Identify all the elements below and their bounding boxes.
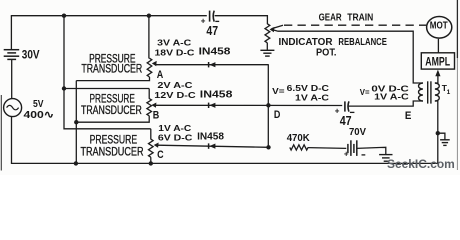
svg-text:V=: V= xyxy=(360,87,370,97)
motor MOT circle xyxy=(427,17,452,39)
label C2 minus xyxy=(350,111,355,113)
node dot top rail / pot A xyxy=(147,14,151,18)
battery B1 30V xyxy=(4,50,20,60)
wire row B wiper to capacitor C2 xyxy=(155,104,342,106)
label pressure transducer B xyxy=(81,92,142,117)
wire pot B top edge xyxy=(64,88,150,90)
svg-text:IN458: IN458 xyxy=(200,90,233,101)
resistor R5 470K xyxy=(290,145,308,150)
svg-text:REBALANCE: REBALANCE xyxy=(338,37,387,48)
svg-text:1: 1 xyxy=(447,89,451,96)
svg-text:E: E xyxy=(405,110,412,122)
wire row A wiper to bus xyxy=(155,64,268,66)
label 1V A-C at E xyxy=(374,92,409,102)
wire transformer secondary to amplifier with arrow xyxy=(435,70,440,84)
wire pot A bottom edge xyxy=(76,77,149,81)
wiper arrow pot C xyxy=(154,143,159,148)
node dot tie line / bottom rail xyxy=(74,161,78,165)
label INDICATOR REBALANCE xyxy=(279,37,387,48)
label 18V D-C xyxy=(155,47,195,57)
svg-text:POT.: POT. xyxy=(316,48,337,59)
label C1 value 47 xyxy=(206,23,218,38)
label 12V D-C xyxy=(154,90,195,100)
wire pot B bottom edge xyxy=(76,116,149,122)
node dot D xyxy=(266,103,270,107)
label 30V xyxy=(22,50,40,62)
label IN458 row C xyxy=(197,132,224,143)
svg-text:TRAIN: TRAIN xyxy=(347,12,373,23)
svg-text:B: B xyxy=(153,109,160,121)
label node B xyxy=(153,109,160,121)
node dot secondary bottom branch xyxy=(436,131,440,135)
wiper arrow of rebalance pot xyxy=(270,27,275,32)
wire rebalance pot to ground xyxy=(266,43,268,50)
svg-text:+: + xyxy=(344,150,349,159)
potentiometer B element xyxy=(147,99,152,116)
svg-text:C: C xyxy=(157,149,164,161)
wire bottom rail xyxy=(11,162,439,164)
ground right of 70V battery xyxy=(379,155,392,162)
wiper arrow pot A xyxy=(152,61,157,66)
svg-text:2V A-C: 2V A-C xyxy=(157,80,192,90)
svg-text:47: 47 xyxy=(206,23,218,38)
ground below transformer xyxy=(440,140,450,146)
wire battery to ac source xyxy=(11,59,13,98)
label C1 plus xyxy=(201,17,206,26)
svg-text:IN458: IN458 xyxy=(199,47,231,58)
svg-text:1V A-C: 1V A-C xyxy=(295,92,329,102)
capacitor C1 47 plates xyxy=(210,11,215,22)
label IN458 row B xyxy=(200,90,233,101)
node dot tie line / pot B bottom xyxy=(74,120,78,124)
potentiometer R4 indicator rebalance pot element xyxy=(265,24,270,43)
svg-text:TRANSDUCER: TRANSDUCER xyxy=(81,62,142,76)
wire battery top lead xyxy=(10,16,12,49)
label pressure transducer A xyxy=(81,51,142,75)
svg-text:18V D-C: 18V D-C xyxy=(155,47,195,57)
label 6V D-C xyxy=(158,132,193,142)
label AMPL xyxy=(425,55,450,69)
svg-text:30V: 30V xyxy=(22,50,40,62)
label node A xyxy=(157,69,164,81)
label 3V A-C xyxy=(157,38,191,48)
wire ac source to bottom rail xyxy=(11,117,13,164)
svg-text:V=: V= xyxy=(272,86,284,96)
svg-text:D: D xyxy=(274,109,281,121)
label T1 xyxy=(442,83,451,96)
potentiometer A element xyxy=(147,58,152,77)
label 6.5V D-C xyxy=(287,83,329,93)
node dot bus / row C xyxy=(266,145,270,149)
wire transformer secondary top xyxy=(435,82,438,84)
gear train dashed mechanical link xyxy=(272,25,427,29)
svg-text:AMPL: AMPL xyxy=(425,55,450,69)
diode CR2 IN458 xyxy=(209,103,216,108)
svg-text:MOT: MOT xyxy=(430,21,448,32)
label C1 minus xyxy=(215,20,219,22)
label B2 minus xyxy=(362,154,366,156)
label 5V xyxy=(33,99,44,110)
wire motor to amplifier xyxy=(437,39,439,53)
amplifier AMPL box xyxy=(421,53,454,69)
watermark SeekIC.com xyxy=(387,159,455,171)
svg-text:12V D-C: 12V D-C xyxy=(154,90,195,100)
label pressure transducer C xyxy=(80,133,143,159)
wire pot B top lead xyxy=(148,89,150,99)
label C2 value 47 xyxy=(340,113,352,128)
label 1V A-C at D xyxy=(295,92,329,102)
svg-text:TRANSDUCER: TRANSDUCER xyxy=(80,144,143,158)
label V= at D xyxy=(272,86,284,96)
svg-text:470K: 470K xyxy=(287,133,311,144)
svg-text:3V A-C: 3V A-C xyxy=(157,38,191,48)
wire battery to ground corner xyxy=(357,147,386,154)
svg-text:IN458: IN458 xyxy=(197,132,224,143)
scan artifact right edge xyxy=(456,0,458,170)
svg-text:GEAR: GEAR xyxy=(319,12,342,23)
wire pot C top lead xyxy=(150,129,152,140)
ground below rebalance pot xyxy=(260,50,274,56)
wire pot C bottom lead xyxy=(150,157,152,163)
label 70V xyxy=(349,126,366,138)
node dot left bus / pot B top xyxy=(62,86,66,90)
label 1V A-C row C xyxy=(158,123,191,133)
wire diode bus xyxy=(267,64,269,147)
scan artifact left edge xyxy=(0,95,2,171)
wire top rail corner down to rebalance pot xyxy=(266,15,268,24)
wire top rail to pot A xyxy=(148,16,150,59)
label B2 plus xyxy=(344,150,349,159)
diode CR1 IN458 xyxy=(209,62,216,67)
label node E xyxy=(405,110,412,122)
svg-text:400∿: 400∿ xyxy=(24,109,55,121)
wire row C wiper to resistor xyxy=(157,145,268,147)
wire rebalance wiper to transformer primary xyxy=(272,30,423,83)
label C2 plus xyxy=(335,107,340,116)
potentiometer C element xyxy=(149,139,154,157)
wire resistor to battery 70V xyxy=(308,147,346,150)
label 2V A-C xyxy=(157,80,192,90)
label V= at E xyxy=(360,87,370,97)
svg-text:6V D-C: 6V D-C xyxy=(158,132,193,142)
label 0V D-C xyxy=(371,84,408,94)
node dot top rail / left bus xyxy=(62,14,66,18)
label MOT xyxy=(430,21,448,32)
wire top rail left segment xyxy=(11,15,207,17)
label POT. xyxy=(316,48,337,59)
label node C xyxy=(157,149,164,161)
label 470K xyxy=(287,133,311,144)
wire transformer primary bottom to node E xyxy=(349,101,423,106)
label node D xyxy=(274,109,281,121)
svg-text:+: + xyxy=(201,17,206,26)
svg-text:70V: 70V xyxy=(349,126,366,138)
battery B2 70V xyxy=(348,140,357,156)
svg-text:1V A-C: 1V A-C xyxy=(374,92,409,102)
ac source G1 5V 400Hz xyxy=(4,99,22,117)
wiper arrow pot B xyxy=(152,103,157,108)
node dot pot C / bottom rail xyxy=(149,161,153,165)
capacitor C2 47 plates xyxy=(345,101,349,111)
wire pot bottoms tie line xyxy=(75,81,77,164)
label 400~ xyxy=(24,109,55,121)
wire left bus (tops of pots B and C) xyxy=(64,16,151,129)
label IN458 row A xyxy=(199,47,231,58)
wire transformer secondary bottom to bottom rail xyxy=(435,101,438,163)
label GEAR TRAIN xyxy=(319,12,374,23)
transformer T1 xyxy=(419,81,440,103)
wire branch to chassis ground xyxy=(438,133,445,139)
svg-text:SeekIC.com: SeekIC.com xyxy=(387,159,455,171)
diode CR3 IN458 xyxy=(209,143,216,148)
wire top rail right segment xyxy=(215,15,268,17)
svg-text:TRANSDUCER: TRANSDUCER xyxy=(81,103,142,117)
